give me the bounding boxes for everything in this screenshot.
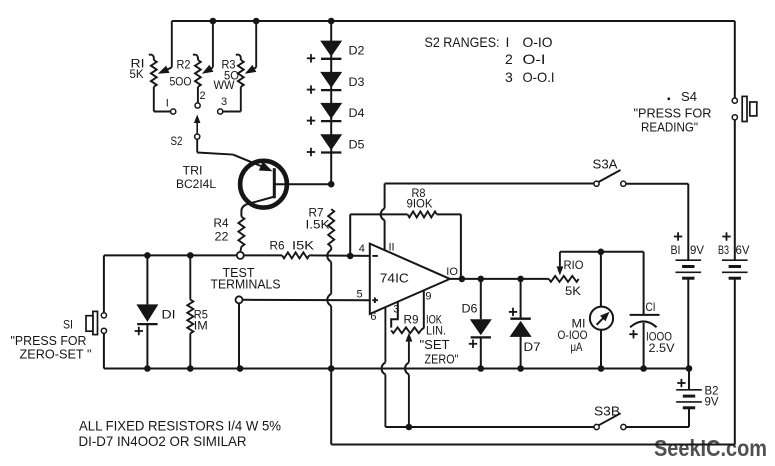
label pin 11	[389, 241, 395, 253]
svg-text:D6: D6	[462, 302, 478, 316]
watermark SeekIC.com	[654, 435, 767, 461]
label pin 9	[425, 290, 431, 302]
wire top rail right corner down to S4	[734, 21, 736, 98]
label R5 1M	[194, 307, 208, 332]
battery B3 6V	[722, 260, 748, 278]
resistor R9 10K LIN set-zero	[391, 327, 421, 333]
switch S2 pole	[195, 134, 200, 139]
svg-text:IM: IM	[194, 319, 208, 333]
label R1 5K	[130, 56, 145, 81]
polarity + of B3	[722, 232, 730, 240]
svg-text:5OO: 5OO	[170, 75, 192, 89]
label R10 5K	[564, 258, 584, 298]
svg-text:SI: SI	[63, 317, 73, 331]
wire S3A to B1	[626, 184, 688, 261]
svg-text:5: 5	[357, 289, 363, 301]
svg-text:IO: IO	[446, 266, 458, 278]
label D4	[349, 106, 365, 120]
node M1 top wire junction	[598, 249, 605, 256]
terminal test lower	[236, 296, 243, 303]
wire bottom rail	[104, 367, 689, 369]
label TR1 BC214L	[176, 163, 216, 191]
svg-text:D5: D5	[349, 137, 365, 151]
polarity + of D4	[307, 116, 315, 124]
svg-text:I5K: I5K	[292, 238, 314, 252]
label contact 3	[221, 96, 227, 108]
label 741C	[380, 271, 409, 285]
label D6	[462, 302, 478, 316]
label R4 22	[214, 216, 229, 243]
label R9 10K LIN	[404, 313, 447, 338]
resistor R7 1.5K	[328, 209, 334, 247]
svg-text:SeekIC.com: SeekIC.com	[654, 435, 767, 461]
op-amp U1 741C	[370, 244, 450, 314]
svg-text:S4: S4	[681, 89, 697, 104]
diode D5	[320, 134, 342, 152]
svg-text:READING": READING"	[641, 120, 698, 135]
label S2	[171, 134, 183, 148]
svg-text:RIO: RIO	[564, 258, 584, 272]
wire op-amp output pin 10	[450, 278, 549, 280]
svg-text:D4: D4	[349, 106, 365, 120]
svg-text:"PRESS FOR: "PRESS FOR	[634, 105, 712, 120]
svg-text:μA: μA	[571, 340, 583, 354]
wire lower test terminal down to bottom rail	[238, 303, 240, 368]
diode D3	[320, 72, 342, 90]
svg-text:9V: 9V	[690, 243, 704, 257]
wire R2 bottom lead to contact 2	[197, 87, 199, 103]
diode D4	[320, 103, 342, 121]
resistor R4 22	[238, 217, 244, 252]
node base/diode-chain/R7 junction	[328, 181, 335, 188]
svg-text:B3: B3	[718, 243, 729, 257]
wire op-amp pin 6 down (hops bottom rail) joins R9 wiper wire	[382, 308, 409, 428]
wire S4 down to B3	[734, 120, 736, 260]
polarity + of C1	[629, 330, 637, 338]
label R7 1.5K	[306, 205, 330, 231]
wire S2 to TR1 emitter	[197, 139, 233, 154]
node D6 bottom	[478, 365, 485, 372]
resistor R2 (500 potentiometer)	[193, 21, 214, 87]
terminal test upper	[237, 252, 244, 259]
label B1 9V	[671, 243, 705, 257]
resistor R8 910K feedback	[350, 211, 461, 279]
svg-text:WW: WW	[214, 78, 236, 92]
node R3 wiper junction on top rail	[253, 18, 260, 25]
node R8 left leg junction	[347, 253, 354, 260]
node R5 top	[187, 252, 194, 259]
diode D2	[320, 41, 342, 59]
label contact 1	[166, 97, 169, 109]
label S3B	[594, 404, 620, 419]
resistor R6 15K and wire to op-amp pin 4	[244, 252, 370, 258]
label R3 50 WW	[214, 57, 240, 92]
svg-text:2: 2	[200, 90, 206, 102]
label D7	[524, 340, 541, 354]
svg-text:O-I: O-I	[523, 51, 546, 67]
svg-text:II: II	[389, 241, 395, 253]
label S2 RANGES table	[425, 34, 555, 85]
svg-text:22: 22	[215, 229, 229, 243]
svg-text:R9: R9	[404, 313, 419, 327]
node diode chain junction on top rail	[328, 18, 335, 25]
svg-text:R4: R4	[214, 216, 229, 230]
label contact 2	[200, 90, 206, 102]
label S1 PRESS FOR ZERO-SET	[11, 317, 92, 361]
switch S1 push-button	[86, 255, 107, 368]
label TEST TERMINALS	[211, 265, 281, 292]
svg-text:2: 2	[505, 51, 513, 67]
svg-text:I: I	[166, 97, 169, 109]
svg-text:BI: BI	[671, 243, 681, 257]
label D2	[349, 44, 365, 58]
label 1000 2.5V	[646, 329, 675, 355]
label notes	[79, 417, 282, 449]
label S4 PRESS FOR READING	[634, 89, 712, 134]
wire S1 top to test terminal	[104, 254, 237, 256]
label R8 910K	[407, 186, 433, 210]
node D1 bottom	[144, 365, 151, 372]
polarity + of D7	[509, 308, 517, 316]
wire R1 bottom lead to contact 1	[154, 87, 171, 112]
svg-text:DI-D7 IN4OO2 OR SIMILAR: DI-D7 IN4OO2 OR SIMILAR	[79, 433, 247, 449]
node D7 top	[517, 276, 524, 283]
resistor R10 5K rheostat	[549, 276, 579, 282]
polarity + of B1	[674, 232, 682, 240]
node R7 line bottom rail junction	[328, 365, 335, 372]
wire TR1 base to diode chain	[274, 183, 331, 185]
svg-text:5K: 5K	[130, 67, 144, 81]
node M1 bottom	[598, 365, 605, 372]
switch S3A	[594, 170, 626, 186]
node D7 bottom	[517, 365, 524, 372]
resistor R3 (50 WW potentiometer)	[236, 21, 256, 87]
label pin 3	[393, 303, 399, 315]
label pin 6	[370, 311, 376, 323]
svg-text:9IOK: 9IOK	[407, 196, 433, 210]
battery B1 9V	[676, 260, 702, 368]
svg-text:D3: D3	[349, 75, 365, 89]
svg-text:5K: 5K	[565, 284, 581, 298]
svg-text:I: I	[506, 34, 510, 50]
wire to S3B left contact	[409, 426, 594, 428]
svg-text:4: 4	[359, 243, 365, 255]
label pin 5	[357, 289, 363, 301]
transistor TR1 BC214L (PNP)	[233, 155, 287, 217]
node R5 bottom	[187, 365, 194, 372]
label C1	[646, 300, 656, 314]
svg-text:CI: CI	[646, 300, 656, 314]
wire R3 bottom lead to contact 3	[223, 87, 241, 112]
polarity + of D2	[307, 54, 315, 62]
svg-text:S2: S2	[171, 134, 183, 148]
node R8 right leg on output	[459, 276, 466, 283]
label pin 4	[359, 243, 365, 255]
svg-text:I.5K: I.5K	[306, 217, 330, 231]
label SET ZERO	[420, 337, 459, 366]
wire op-amp pin 11 up to S3A (hops over R8 wire)	[381, 184, 594, 251]
svg-text:ZERO-SET ": ZERO-SET "	[20, 347, 92, 362]
wire diode chain vertical	[330, 21, 332, 184]
wire top supply rail	[172, 20, 735, 22]
label D5	[349, 137, 365, 151]
svg-text:9V: 9V	[705, 395, 719, 409]
svg-text:S3B: S3B	[594, 404, 620, 419]
node D1 top	[144, 252, 151, 259]
wire R7 bottom vertical down (hops over op-amp input wires)	[327, 247, 331, 369]
resistor R1 (5K potentiometer)	[149, 21, 172, 87]
node R2 wiper junction on top rail	[210, 18, 217, 25]
switch S2 blade arrow	[194, 115, 201, 134]
capacitor C1 1000uF 2.5V	[630, 252, 660, 369]
svg-text:2.5V: 2.5V	[649, 341, 675, 355]
label D1	[162, 307, 176, 321]
svg-text:ZERO": ZERO"	[425, 351, 459, 366]
svg-text:TRI: TRI	[183, 163, 203, 177]
svg-text:3: 3	[221, 96, 227, 108]
label D3	[349, 75, 365, 89]
node C1 bottom	[640, 365, 647, 372]
svg-text:BC2I4L: BC2I4L	[176, 177, 216, 191]
svg-text:6: 6	[370, 311, 376, 323]
label R6 15K	[270, 238, 315, 252]
wire op-amp pin 9 lead to R9	[421, 290, 424, 330]
meter M1 0-100uA	[590, 252, 613, 369]
svg-text:R6: R6	[270, 238, 285, 252]
S2 contact 2	[195, 103, 200, 108]
polarity + of D3	[307, 85, 315, 93]
wire lower test terminal to op-amp pin 5	[243, 299, 370, 301]
wiper of R9 (arrow up) down to S3B wire (hops bottom rail)	[405, 333, 412, 427]
diode D7	[510, 279, 532, 369]
polarity + of D6	[469, 340, 477, 348]
svg-text:S3A: S3A	[593, 157, 618, 172]
svg-text:ALL FIXED RESISTORS I/4 W 5%: ALL FIXED RESISTORS I/4 W 5%	[79, 417, 281, 433]
node lower test terminal on bottom rail	[237, 365, 244, 372]
svg-text:"SET: "SET	[420, 337, 450, 352]
polarity + of D1	[135, 327, 143, 335]
wire B3 bottom loop to R7 line	[331, 278, 735, 444]
svg-text:O-IO: O-IO	[523, 34, 553, 50]
diode D6	[470, 279, 492, 369]
svg-text:S2 RANGES:: S2 RANGES:	[425, 34, 500, 50]
svg-text:TERMINALS: TERMINALS	[211, 276, 281, 291]
svg-text:6V: 6V	[736, 243, 750, 257]
S2 contact 1	[171, 109, 176, 114]
switch S3B	[594, 413, 626, 429]
node D6 top	[478, 276, 485, 283]
svg-text:O-O.I: O-O.I	[523, 69, 555, 85]
svg-text:74IC: 74IC	[380, 271, 409, 285]
svg-text:D2: D2	[349, 44, 365, 58]
label M1 0-100 uA	[558, 316, 588, 353]
label R2 500	[170, 57, 192, 88]
label B3 6V	[718, 243, 750, 257]
svg-text:DI: DI	[162, 307, 176, 321]
wire op-amp pin 3 lead to R9	[391, 302, 398, 328]
wiper of R10 arrow and wire to C1 corner	[557, 252, 644, 276]
polarity + of D5	[307, 148, 315, 156]
polarity + of B2	[677, 379, 685, 387]
switch S4 push-button	[732, 96, 757, 121]
svg-text:D7: D7	[524, 340, 541, 354]
svg-text:3: 3	[505, 69, 513, 85]
node pin6/R9-wiper junction	[406, 424, 413, 431]
svg-text:R2: R2	[177, 57, 191, 71]
label B2 9V	[705, 383, 719, 408]
label pin 10	[446, 266, 458, 278]
svg-text:9: 9	[425, 290, 431, 302]
S2 contact 3	[218, 109, 223, 114]
battery B2 9V	[626, 369, 702, 428]
node B1/B2 junction at rail end	[686, 365, 693, 372]
svg-text:LIN.: LIN.	[426, 324, 446, 338]
label S3A	[593, 157, 618, 172]
resistor R5 1M	[187, 255, 193, 368]
diode D1	[136, 255, 158, 368]
